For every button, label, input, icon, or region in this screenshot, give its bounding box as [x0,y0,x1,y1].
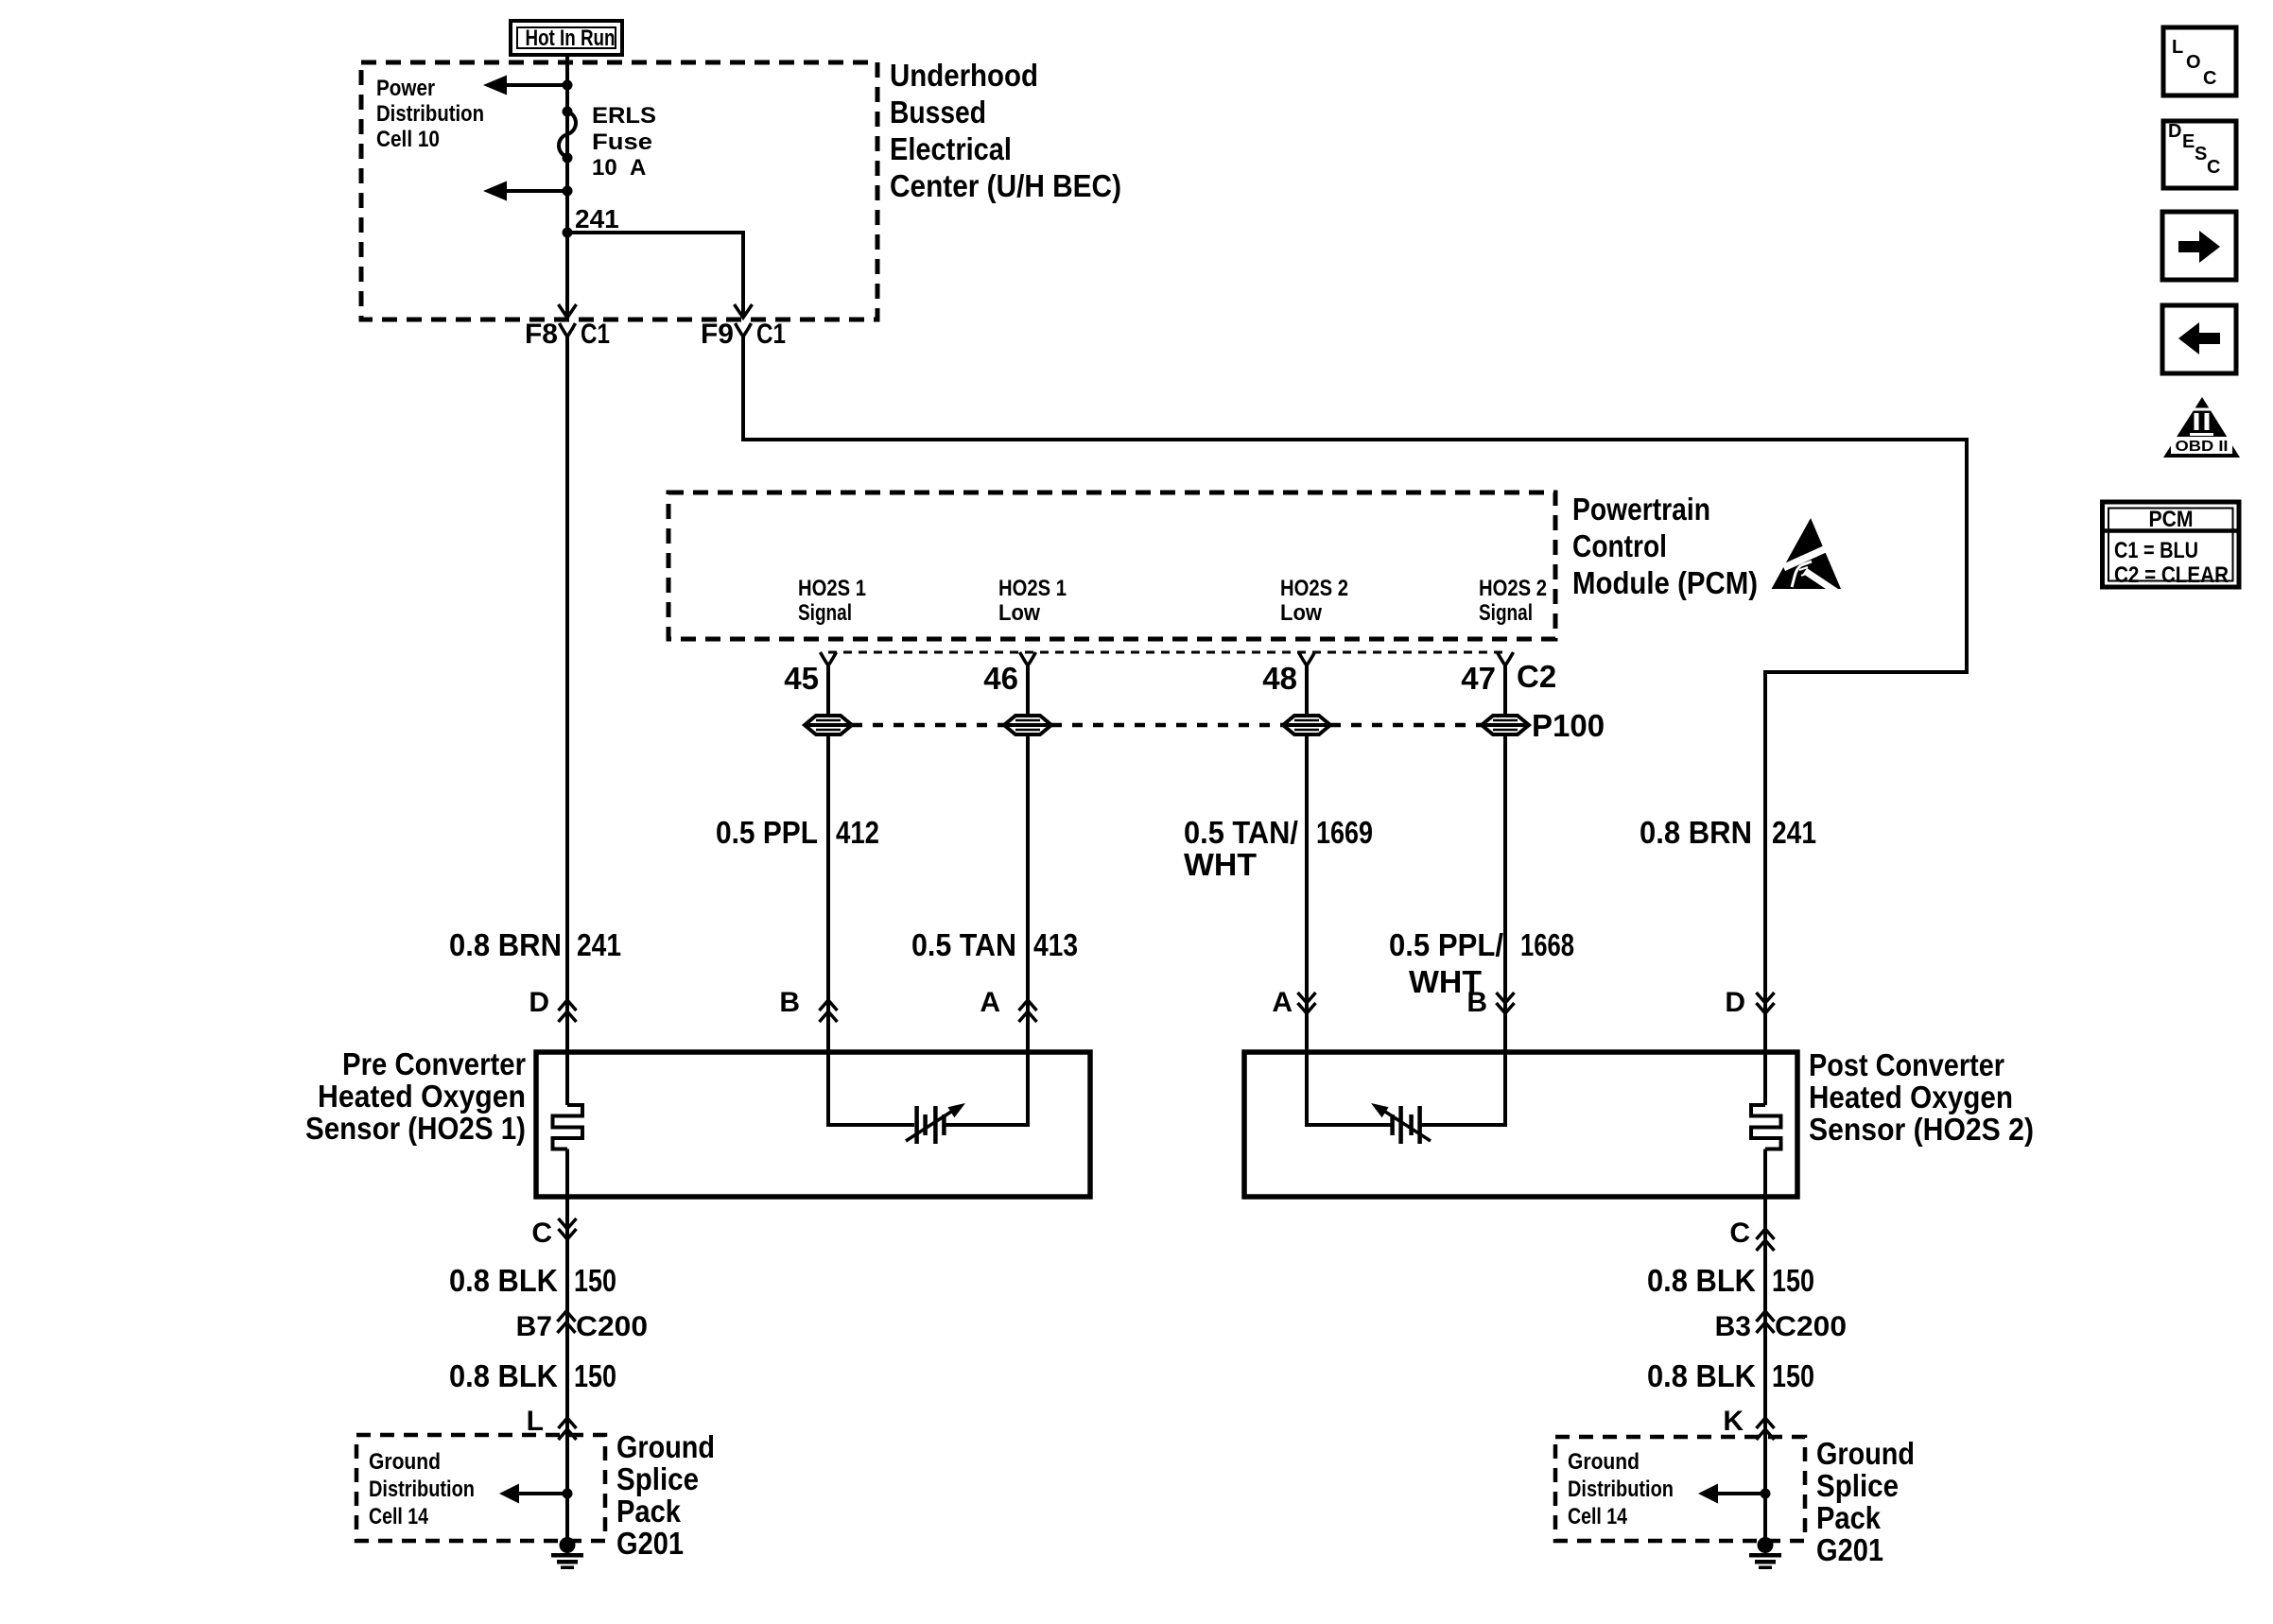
svg-text:C: C [2203,68,2216,89]
wire pin46 down [946,665,1028,1125]
svg-text:10 A: 10 A [592,155,646,181]
svg-text:150: 150 [1772,1358,1814,1393]
grommet P100 d [1482,708,1605,743]
label Post Converter [1809,1047,2034,1147]
svg-text:Cell 10: Cell 10 [376,127,440,152]
svg-text:Heated Oxygen: Heated Oxygen [318,1079,526,1114]
svg-text:150: 150 [1772,1263,1814,1298]
svg-text:Splice: Splice [1816,1468,1899,1503]
svg-text:E: E [2182,131,2195,152]
svg-text:Low: Low [998,600,1040,626]
svg-text:HO2S 1: HO2S 1 [998,576,1067,601]
svg-text:P100: P100 [1532,708,1605,743]
label 0.8 BLK 150 [1647,1358,1814,1393]
svg-text:412: 412 [836,815,879,850]
HO2S1 box [536,1052,1090,1197]
wire heater to C [565,1149,569,1539]
sensing element HO2S2 (variable cell) [1371,1103,1431,1144]
svg-text:D: D [2168,121,2181,142]
svg-text:Pre Converter: Pre Converter [342,1046,526,1081]
svg-text:C2 = CLEAR: C2 = CLEAR [2114,562,2229,588]
svg-text:Distribution: Distribution [369,1477,475,1502]
branch arrow left [499,1484,566,1504]
pin label HO2S 1 Signal [798,576,866,626]
svg-text:D: D [529,987,549,1018]
svg-text:S: S [2195,144,2207,164]
label 0.5 TAN/WHT 1669 [1184,815,1373,882]
svg-text:0.8 BLK: 0.8 BLK [1647,1358,1756,1393]
pin 45 [784,652,836,696]
wire main feed from Hot In Run [565,55,569,318]
wire branch arrow upper [507,83,567,87]
node ground junction left [563,1489,573,1499]
svg-text:Hot In Run: Hot In Run [526,26,616,51]
pin label HO2S 1 Low [998,576,1067,626]
svg-text:Electrical: Electrical [890,131,1012,166]
svg-text:O: O [2186,52,2201,73]
pin D HO2S1 [529,987,576,1022]
wire F8 down to HO2S1 pin D [565,337,569,1105]
svg-text:Bussed: Bussed [890,95,986,130]
svg-text:Post Converter: Post Converter [1809,1047,2004,1082]
connector B3 C200 [1715,1311,1847,1342]
PCM dashed box [668,492,1555,639]
label 0.5 PPL 412 [716,815,879,850]
heater element HO2S2 [1751,1105,1781,1149]
wire heater to C right [1763,1149,1767,1539]
pin B HO2S1 [779,987,837,1022]
label U/H BEC [890,58,1121,203]
svg-text:0.5 TAN/: 0.5 TAN/ [1184,815,1298,850]
pin 47 C2 [1461,652,1556,696]
svg-text:241: 241 [577,927,621,962]
icon arrow left [2162,305,2236,373]
pin A HO2S2 [1272,987,1315,1018]
svg-text:F9: F9 [701,319,734,350]
Ground Distribution dashed box left [356,1435,605,1541]
svg-text:ERLS: ERLS [592,103,656,129]
svg-text:Ground: Ground [1568,1449,1640,1475]
grommet P100 a [805,716,852,734]
connector F8 C1 [525,319,610,350]
svg-text:46: 46 [983,661,1018,696]
svg-text:C1: C1 [756,319,786,350]
svg-text:0.5 PPL: 0.5 PPL [716,815,818,850]
label 0.8 BLK 150 [449,1263,616,1298]
svg-text:Sensor (HO2S 2): Sensor (HO2S 2) [1809,1112,2034,1147]
svg-text:Pack: Pack [1816,1500,1882,1535]
fine dashed connector line [828,651,1505,654]
Ground Distribution dashed box right [1555,1437,1805,1541]
wire branch arrow lower [507,189,567,193]
svg-text:0.8 BLK: 0.8 BLK [1647,1263,1756,1298]
svg-text:B7: B7 [516,1311,552,1342]
icon OBD II triangle [2163,397,2240,458]
pin B HO2S2 [1466,987,1514,1018]
svg-text:47: 47 [1461,661,1496,696]
label 0.8 BLK 150 [1647,1263,1814,1298]
svg-text:0.8 BLK: 0.8 BLK [449,1263,558,1298]
label Power Distribution Cell 10 [376,76,484,152]
heater element HO2S1 [553,1105,583,1149]
node ground junction right [1761,1489,1771,1499]
icon DESC [2163,121,2236,188]
pin label HO2S 2 Low [1280,576,1348,626]
svg-text:Cell 14: Cell 14 [369,1504,429,1529]
grommet P100 b [1004,716,1051,734]
branch arrow right [1698,1484,1764,1504]
svg-text:0.5 PPL/: 0.5 PPL/ [1389,927,1503,962]
pin D HO2S2 [1725,987,1774,1018]
ESD symbol [1772,518,1845,598]
svg-text:Ground: Ground [1816,1436,1915,1471]
svg-text:B3: B3 [1715,1311,1751,1342]
svg-text:WHT: WHT [1184,847,1257,882]
svg-text:241: 241 [1772,815,1816,850]
svg-text:A: A [1272,987,1293,1018]
node junction [563,80,573,91]
svg-text:0.8 BRN: 0.8 BRN [449,927,562,962]
node 241 junction [563,228,573,238]
arrow into F9 [735,304,753,318]
svg-text:B: B [1466,987,1487,1018]
svg-text:0.5 TAN: 0.5 TAN [911,927,1016,962]
pin C HO2S2 [1729,1218,1774,1251]
wire pin45 down [828,665,914,1125]
svg-text:C1 = BLU: C1 = BLU [2114,538,2198,563]
label 0.5 PPL/WHT 1668 [1389,927,1574,999]
svg-text:Signal: Signal [798,600,852,626]
Underhood Bussed Electrical Center dashed box [361,62,877,320]
svg-text:K: K [1723,1406,1744,1437]
svg-text:Signal: Signal [1479,600,1533,626]
svg-text:C200: C200 [1775,1311,1847,1342]
svg-text:HO2S 2: HO2S 2 [1479,576,1547,601]
svg-text:Sensor (HO2S 1): Sensor (HO2S 1) [305,1111,526,1146]
svg-text:48: 48 [1262,661,1297,696]
svg-text:C1: C1 [581,319,610,350]
label Ground Splice Pack G201 left [616,1429,715,1561]
pin 48 [1262,652,1314,696]
svg-text:A: A [980,987,1000,1018]
pin 46 [983,652,1035,696]
svg-text:L: L [527,1406,544,1437]
svg-text:C200: C200 [576,1311,648,1342]
label Pre Converter [305,1046,526,1146]
label 0.5 TAN 413 [911,927,1078,962]
svg-text:Distribution: Distribution [376,101,484,127]
label 0.8 BRN 241 left [449,927,621,962]
svg-text:Control: Control [1572,528,1667,563]
svg-text:G201: G201 [1816,1532,1883,1567]
svg-text:241: 241 [575,204,619,233]
svg-text:1668: 1668 [1520,927,1574,962]
label 0.8 BLK 150 [449,1358,616,1393]
svg-text:Powertrain: Powertrain [1572,492,1710,527]
wire pin47 down [1421,665,1505,1125]
svg-text:Fuse: Fuse [592,130,652,155]
svg-text:150: 150 [574,1358,616,1393]
connector F9 C1 [701,319,786,350]
svg-text:C2: C2 [1517,659,1556,694]
svg-text:Ground: Ground [616,1429,715,1464]
svg-text:Distribution: Distribution [1568,1477,1674,1502]
svg-text:150: 150 [574,1263,616,1298]
label Ground Distribution Cell 14 right [1568,1449,1674,1529]
svg-text:45: 45 [784,661,819,696]
svg-text:Splice: Splice [616,1461,699,1496]
label 0.8 BRN 241 right [1640,815,1816,850]
svg-text:L: L [2172,37,2183,58]
node Hot In Run box [511,21,622,55]
wire F9 to PCM loop and down to HO2S2 pin D [743,337,1967,1105]
svg-text:1669: 1669 [1316,815,1373,850]
svg-text:Module (PCM): Module (PCM) [1572,565,1758,600]
svg-text:0.8 BLK: 0.8 BLK [449,1358,558,1393]
svg-text:D: D [1725,987,1745,1018]
legend PCM connector colors [2103,502,2240,588]
connector L ground splice [527,1406,577,1440]
wire pin48 down [1307,665,1391,1125]
svg-text:B: B [779,987,800,1018]
svg-text:C: C [1729,1218,1750,1249]
svg-text:C: C [531,1218,552,1249]
svg-text:C: C [2207,157,2220,178]
arrow into F8 [559,304,577,318]
svg-text:Heated Oxygen: Heated Oxygen [1809,1080,2013,1114]
wire to F9 [567,233,743,318]
svg-text:Ground: Ground [369,1449,441,1475]
svg-text:Underhood: Underhood [890,58,1038,93]
icon arrow right [2162,212,2236,280]
svg-text:PCM: PCM [2149,507,2194,532]
node junction [563,186,573,197]
label Ground Splice Pack G201 right [1816,1436,1915,1567]
svg-text:Power: Power [376,76,435,101]
sensing element HO2S1 (variable cell) [906,1103,965,1144]
grommet dashed line [852,723,1482,728]
connector K ground splice [1723,1406,1774,1440]
svg-text:Cell 14: Cell 14 [1568,1504,1628,1529]
svg-text:OBD II: OBD II [2176,439,2229,455]
pin C HO2S1 [531,1218,576,1249]
label Ground Distribution Cell 14 left [369,1449,475,1529]
ground G201 left [551,1537,583,1569]
svg-text:F8: F8 [525,319,558,350]
HO2S2 box [1244,1052,1797,1197]
svg-text:Center (U/H BEC): Center (U/H BEC) [890,168,1121,203]
label Powertrain Control Module [1572,492,1758,600]
svg-text:G201: G201 [616,1526,684,1561]
pin label HO2S 2 Signal [1479,576,1547,626]
pin A HO2S1 [980,987,1036,1022]
svg-text:413: 413 [1033,927,1078,962]
svg-text:Low: Low [1280,600,1322,626]
grommet P100 c [1283,716,1330,734]
icon LOC [2163,27,2236,95]
connector B7 C200 [516,1311,648,1342]
ground G201 right [1749,1537,1781,1569]
svg-text:Pack: Pack [616,1494,682,1529]
svg-text:HO2S 2: HO2S 2 [1280,576,1348,601]
svg-text:0.8 BRN: 0.8 BRN [1640,815,1752,850]
fuse ERLS 10A [559,103,656,181]
svg-text:HO2S 1: HO2S 1 [798,576,866,601]
